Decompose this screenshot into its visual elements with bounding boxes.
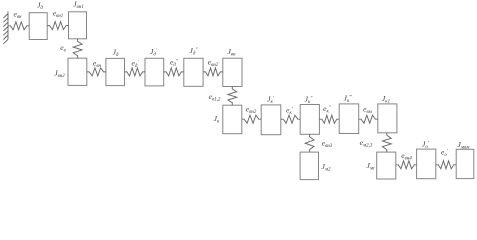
svg-text:евн1: евн1 bbox=[53, 9, 64, 20]
svg-text:Jмi: Jмi bbox=[367, 161, 376, 172]
spring e_vn1 (J_d to J_vn1) bbox=[47, 22, 68, 30]
svg-text:ек′: ек′ bbox=[286, 106, 294, 117]
spring e_d' (J_d to J_d') bbox=[125, 68, 146, 76]
mass J_vn1 (row1 box2) bbox=[69, 12, 87, 39]
mass J_k (row3 box1) bbox=[223, 105, 242, 134]
svg-text:евн2: евн2 bbox=[208, 58, 219, 69]
spring e_vn (J_vn2 to J_d) bbox=[87, 68, 106, 76]
mass J_m2 (bottom branch box) bbox=[300, 152, 318, 180]
svg-text:Jм2: Jм2 bbox=[321, 162, 331, 173]
svg-text:Jд″: Jд″ bbox=[190, 46, 199, 57]
mass J_mi (row4 box1) bbox=[377, 152, 396, 179]
mass J_d (row2 box2) bbox=[106, 58, 125, 85]
svg-text:ев: ев bbox=[60, 43, 66, 54]
spring e_vn2 (J_d'' to J_vn) bbox=[203, 68, 223, 76]
svg-text:евн: евн bbox=[93, 59, 102, 70]
mass J_k' (row3 box2) bbox=[261, 105, 281, 135]
mass J_vn (row2 box5) bbox=[223, 58, 242, 86]
svg-text:Jк1: Jк1 bbox=[382, 94, 390, 105]
spring e_vn (wall to J_d) bbox=[8, 22, 29, 30]
svg-text:Jд: Jд bbox=[113, 48, 119, 59]
mass J_d'' (row2 box4) bbox=[184, 58, 203, 86]
svg-text:ео′: ео′ bbox=[441, 148, 449, 159]
svg-text:евн4: евн4 bbox=[401, 151, 412, 162]
svg-text:ем2,3: ем2,3 bbox=[360, 138, 373, 149]
svg-text:ев1,2: ев1,2 bbox=[209, 92, 221, 103]
spring e_k'' (J_k'' to J_k''') bbox=[319, 115, 339, 123]
mass J_k''' (row3 box4) bbox=[339, 104, 359, 134]
svg-text:евн2: евн2 bbox=[246, 105, 257, 116]
svg-text:Jд′: Jд′ bbox=[150, 47, 158, 58]
wall (fixed support) bbox=[3, 12, 8, 44]
spring e_vn2 (J_k to J_k') bbox=[242, 115, 261, 123]
mass J_d (row1 box1) bbox=[29, 13, 47, 40]
spring e_m2,3 (J_k1 down to J_mi) bbox=[382, 133, 391, 152]
spring e_vn4 (J_mi to J_o') bbox=[396, 161, 417, 169]
svg-text:Jк″: Jк″ bbox=[305, 95, 314, 106]
mass J_k1 (row3 box5) bbox=[378, 104, 397, 133]
svg-text:Jд: Jд bbox=[37, 1, 43, 12]
svg-text:ек″: ек″ bbox=[323, 104, 332, 115]
mass J_d' (row2 box3) bbox=[145, 58, 164, 86]
spring e_v (J_vn1 down to J_vn2) bbox=[73, 39, 82, 58]
spring e_o' (J_o' to J_mvm) bbox=[436, 161, 456, 169]
svg-text:ед″: ед″ bbox=[170, 58, 179, 69]
svg-text:Jвн2: Jвн2 bbox=[54, 69, 65, 80]
spring e_k' (J_k' to J_k'') bbox=[281, 115, 300, 123]
svg-text:евн: евн bbox=[14, 10, 23, 21]
svg-text:Jк′: Jк′ bbox=[267, 95, 275, 106]
svg-text:евн3: евн3 bbox=[322, 139, 333, 150]
spring e_v1,2 (J_vn down to J_k) bbox=[228, 87, 237, 106]
svg-text:Jк: Jк bbox=[214, 114, 220, 125]
mass J_k'' (row3 box3) bbox=[300, 105, 319, 135]
mass J_mvm (row4 box3) bbox=[456, 149, 474, 178]
spring e_vm (J_k''' to J_k1) bbox=[359, 115, 378, 123]
svg-text:евм: евм bbox=[363, 105, 373, 116]
svg-text:Jвн: Jвн bbox=[228, 47, 237, 58]
mass J_vn2 (row2 box1) bbox=[68, 58, 87, 85]
svg-text:Jвн1: Jвн1 bbox=[73, 0, 84, 10]
svg-text:ед′: ед′ bbox=[132, 59, 140, 70]
svg-text:Jо′: Jо′ bbox=[422, 140, 430, 151]
svg-text:Jк‴: Jк‴ bbox=[344, 94, 353, 105]
spring e_d'' (J_d' to J_d'') bbox=[164, 68, 184, 76]
mass J_o' (row4 box2) bbox=[417, 149, 436, 179]
spring e_vn3 (J_k'' down to J_m2) bbox=[305, 134, 314, 152]
